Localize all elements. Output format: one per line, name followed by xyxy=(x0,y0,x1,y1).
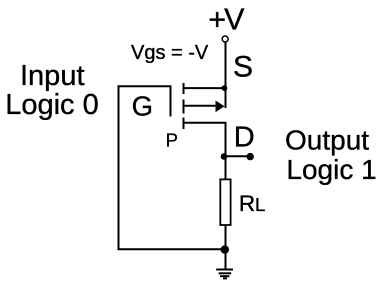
svg-text:Logic 1: Logic 1 xyxy=(286,154,376,185)
svg-text:D: D xyxy=(234,121,255,153)
svg-text:Input: Input xyxy=(20,60,85,92)
svg-text:P: P xyxy=(166,129,178,150)
svg-text:S: S xyxy=(233,50,253,83)
svg-text:+V: +V xyxy=(208,2,245,36)
svg-text:G: G xyxy=(132,90,153,121)
svg-text:Logic 0: Logic 0 xyxy=(5,89,99,121)
svg-text:Output: Output xyxy=(285,124,369,155)
svg-text:R: R xyxy=(239,191,255,216)
svg-text:L: L xyxy=(255,194,265,215)
svg-text:Vgs = -V: Vgs = -V xyxy=(131,42,209,64)
